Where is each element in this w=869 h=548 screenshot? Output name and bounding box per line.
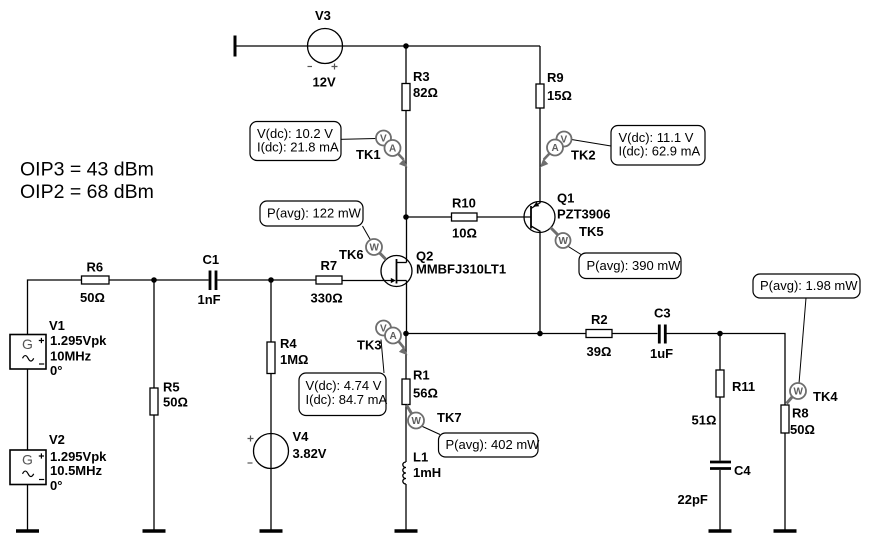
callout TK4 P(avg) [753,274,860,298]
svg-text:330Ω: 330Ω [311,291,343,306]
node junction dot output left [403,331,409,337]
svg-text:50Ω: 50Ω [790,422,815,437]
svg-text:A: A [389,144,396,155]
transistor Q2 internals (JFET MMBFJ310LT1) [391,249,506,284]
wire R3 bottom to R10 junction [405,111,407,218]
svg-text:1MΩ: 1MΩ [280,352,308,367]
resistor R10 [452,213,478,221]
ground below R5 [143,529,166,533]
wire L1 bottom to ground [405,484,407,531]
svg-text:R3: R3 [413,69,430,84]
wire output rail left (node to R2) [406,333,586,335]
node junction dot R10 branch [403,214,409,220]
callout TK1 V(dc)/I(dc) [250,122,341,161]
wire R3 top stub [405,46,407,84]
svg-text:56Ω: 56Ω [413,386,438,401]
svg-text:R6: R6 [87,260,104,275]
svg-text:1mH: 1mH [413,465,441,480]
probe TK6 (W) on Q2 [339,226,386,262]
svg-text:TK1: TK1 [356,147,381,162]
svg-text:OIP2 = 68 dBm: OIP2 = 68 dBm [20,181,154,203]
node junction dot R11 tap [717,331,723,337]
svg-text:51Ω: 51Ω [692,413,717,428]
callout TK7 P(avg) [439,433,541,457]
svg-text:MMBFJ310LT1: MMBFJ310LT1 [416,262,506,277]
source V3 circle [308,29,343,64]
svg-text:V(dc): 4.74 V: V(dc): 4.74 V [306,378,382,393]
svg-text:10MHz: 10MHz [50,349,92,364]
resistor R2 [586,330,612,338]
svg-text:22pF: 22pF [678,492,708,507]
wire R5 top drop [153,280,155,388]
resistor R11 [716,370,724,397]
svg-text:R11: R11 [732,379,755,394]
callout TK6 P(avg) [260,201,363,226]
svg-text:W: W [412,416,422,427]
resistor R4 [267,342,275,374]
svg-text:50Ω: 50Ω [80,290,105,305]
svg-text:W: W [794,387,804,398]
svg-text:TK5: TK5 [579,224,604,239]
svg-text:R9: R9 [547,70,564,85]
node junction dot Q1 collector [537,331,543,337]
svg-text:A: A [390,331,397,342]
svg-text:G: G [22,336,33,352]
svg-text:39Ω: 39Ω [587,344,612,359]
svg-text:1uF: 1uF [650,346,673,361]
svg-text:I(dc): 62.9 mA: I(dc): 62.9 mA [619,144,701,159]
node junction dot top rail/R3 [403,43,409,49]
svg-text:W: W [370,243,380,254]
wire R9 bottom to Q1 emitter [539,108,541,203]
svg-text:10.5MHz: 10.5MHz [50,463,103,478]
wire R11 node to R8 corner [720,334,785,406]
svg-text:C1: C1 [203,252,220,267]
svg-text:3.82V: 3.82V [293,446,327,461]
source V3 internals and labels [308,8,338,90]
source V2 box [10,432,107,493]
source V4 internals and labels [248,429,327,463]
node junction dot R4 tap [268,277,274,283]
svg-text:I(dc): 21.8 mA: I(dc): 21.8 mA [257,140,339,155]
source V4 circle [254,434,289,469]
transistor Q1 internals (PNP PZT3906) [531,191,610,232]
wire R8 bottom to ground [784,433,786,531]
ground below C4 [709,529,732,533]
inductor L1 [403,450,441,485]
svg-text:C3: C3 [654,306,671,321]
svg-text:TK2: TK2 [571,148,596,163]
svg-text:R1: R1 [413,368,430,383]
wire Q2 drain up to R10 junction [406,217,408,263]
resistor R6 [82,276,110,284]
svg-text:C4: C4 [734,463,751,478]
probe TK5 (W) on Q1 [551,224,604,255]
svg-text:A: A [552,143,559,154]
capacitor C4 [678,462,752,507]
wire C3 to R11 node [667,333,721,335]
svg-text:15Ω: 15Ω [547,88,572,103]
svg-text:0°: 0° [50,363,62,378]
probe TK7 (W) below R1 [407,405,462,435]
svg-text:V4: V4 [293,429,310,444]
terminal input bar (top left) [234,36,237,57]
svg-text:1.295Vpk: 1.295Vpk [50,333,107,348]
svg-text:R7: R7 [321,258,338,273]
svg-text:W: W [559,236,569,247]
resistor R3 [402,84,410,111]
svg-text:50Ω: 50Ω [163,395,188,410]
svg-text:P(avg): 122 mW: P(avg): 122 mW [267,206,362,221]
wire Q2 source down to output node [406,281,408,334]
capacitor C1 [198,252,221,307]
svg-text:R10: R10 [452,196,476,211]
svg-text:OIP3 = 43 dBm: OIP3 = 43 dBm [20,159,154,181]
wire R4 bottom to V4 [270,374,272,532]
svg-text:L1: L1 [413,450,428,465]
ground below V4 [260,529,283,533]
svg-text:Q1: Q1 [557,191,574,206]
resistor R8 [781,405,789,433]
callout TK2 V(dc)/I(dc) [611,126,705,166]
svg-text:TK6: TK6 [339,247,364,262]
resistor R7 [316,276,342,284]
svg-text:P(avg): 1.98 mW: P(avg): 1.98 mW [760,278,858,293]
wire R5 bottom to ground [153,415,155,531]
svg-text:1nF: 1nF [198,292,221,307]
wire R9 top stub [539,46,541,84]
svg-text:V1: V1 [49,318,65,333]
wire R4 top drop [270,280,272,342]
wire R10 left segment [406,216,452,218]
wire R1 bottom to L1 [405,405,407,463]
probe TK4 (W) on R8 [787,298,839,404]
svg-text:0°: 0° [50,478,62,493]
wire R11 top stub [719,334,721,371]
wire V2 bottom to ground [27,485,29,532]
wire R7 to Q2 gate [342,280,391,282]
wire C4 bottom to ground [719,470,721,531]
svg-text:R4: R4 [280,336,297,351]
svg-text:TK3: TK3 [357,338,382,353]
svg-text:I(dc): 84.7 mA: I(dc): 84.7 mA [306,392,388,407]
svg-text:R8: R8 [792,406,809,421]
resistor R1 [402,379,410,405]
svg-text:V3: V3 [315,8,331,23]
svg-text:12V: 12V [313,75,336,90]
resistor R9 [536,84,544,108]
wire R6 to C1 with R5 tap [109,279,209,281]
wire C1 to R7 with R4 tap [218,279,317,281]
wire input rail V1 to R6 [28,280,82,335]
wire V1 bottom to V2 top [27,369,29,450]
resistor R5 [150,388,158,415]
probe TK2 (AV) on R9 branch [540,132,611,168]
transistor Q1 circle [524,202,555,233]
wire R2 to C3 [612,333,658,335]
text OIP3/OIP2 annotations [20,159,154,204]
svg-text:P(avg): 402 mW: P(avg): 402 mW [446,437,541,452]
probe TK1 (VA) on R3 branch [250,131,408,168]
svg-text:R2: R2 [591,312,608,327]
wire node down to R1 [405,334,407,380]
svg-text:P(avg): 390 mW: P(avg): 390 mW [587,258,682,273]
wire Q1 collector down to output node [539,232,541,334]
ground below V2 [16,529,39,533]
svg-text:R5: R5 [163,380,180,395]
capacitor C3 [650,306,673,362]
svg-text:82Ω: 82Ω [413,85,438,100]
wire R10 right segment to Q1 base [477,216,531,218]
svg-text:TK7: TK7 [437,410,462,425]
wire R11 bottom to C4 [719,397,721,461]
wire top rail from terminal through V3 to R9 corner [235,45,540,47]
source V1 box [10,318,107,378]
ground below L1 [395,529,418,533]
callout TK3 V(dc)/I(dc) [299,373,387,416]
transistor Q2 circle [381,256,412,287]
ground below R8 [774,529,797,533]
svg-text:1.295Vpk: 1.295Vpk [50,449,107,464]
svg-text:TK4: TK4 [813,389,838,404]
svg-text:G: G [22,452,33,468]
probe TK3 (VA) above R1 [357,321,408,374]
svg-text:10Ω: 10Ω [452,226,477,241]
svg-text:V2: V2 [49,432,65,447]
node junction dot R5 tap [151,277,157,283]
callout TK5 P(avg) [579,253,681,279]
svg-text:PZT3906: PZT3906 [557,207,610,222]
